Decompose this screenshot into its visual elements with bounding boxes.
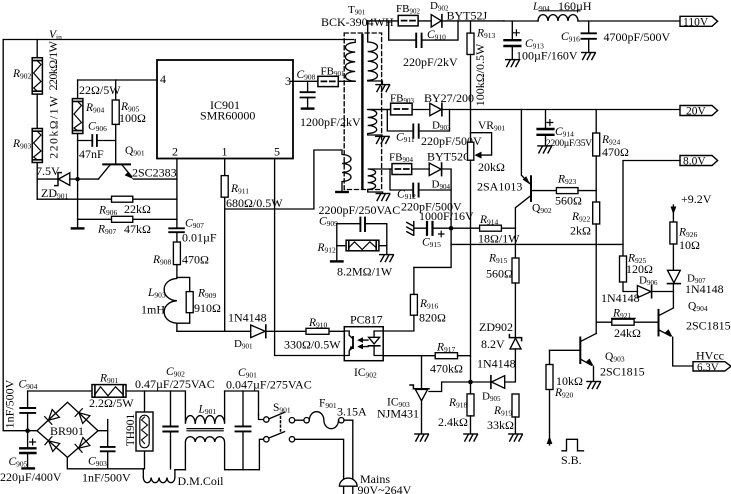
svg-text:0.01µF: 0.01µF	[182, 231, 217, 245]
resistor R909 910ohm parallel	[177, 277, 221, 331]
svg-text:2200pF/250VAC: 2200pF/250VAC	[319, 203, 401, 217]
shunt regulator IC903 NJM431	[377, 356, 468, 441]
svg-text:BYT52J: BYT52J	[447, 9, 488, 23]
diode D907 1N4148	[668, 270, 724, 308]
transformer T901 dashed core box	[344, 33, 381, 190]
wire R906 row	[37, 198, 177, 200]
wire mid rail 8V bus	[451, 243, 623, 245]
svg-text:18Ω/1W: 18Ω/1W	[478, 232, 520, 246]
resistor R911 680ohm 0.5W	[221, 176, 283, 210]
transistor Q901 2SC2383	[80, 145, 177, 180]
signal +9.2V input arrow	[671, 192, 712, 222]
wire IC pin5 column	[275, 159, 345, 356]
wire R902/R903 column	[36, 40, 38, 200]
svg-text:8.2MΩ/1W: 8.2MΩ/1W	[337, 265, 393, 279]
ferrite bead FB903	[390, 93, 414, 115]
ferrite bead FB904	[389, 152, 413, 175]
wire dot column to ground	[77, 179, 79, 227]
connector Mains plug	[339, 472, 411, 494]
svg-text:470Ω: 470Ω	[182, 253, 209, 267]
svg-text:2200µF/35V: 2200µF/35V	[546, 139, 592, 149]
capacitor C909 2200pF/250VAC	[319, 203, 401, 261]
output pennant 8.0V	[680, 156, 718, 168]
ground C915 sideways	[407, 222, 414, 236]
wire R911 to aux winding	[225, 150, 341, 209]
resistor R910 330ohm/0.5W	[284, 317, 341, 352]
svg-text:1: 1	[222, 145, 228, 159]
svg-text:7.5V: 7.5V	[36, 164, 60, 178]
wire C915 node column down	[414, 228, 451, 267]
svg-text:1N4148: 1N4148	[477, 357, 516, 371]
resistor R906 22k	[98, 196, 151, 217]
zener diode ZD902 8.2V	[479, 320, 522, 381]
svg-text:2.2Ω/5W: 2.2Ω/5W	[89, 396, 134, 410]
svg-text:2SC1815: 2SC1815	[600, 365, 645, 379]
zener diode ZD901 7.5V	[36, 164, 75, 201]
svg-text:4700pF/500V: 4700pF/500V	[604, 30, 671, 44]
svg-text:220kΩ/1W: 220kΩ/1W	[46, 40, 60, 90]
svg-text:SMR60000: SMR60000	[200, 109, 255, 123]
svg-text:820Ω: 820Ω	[419, 311, 446, 325]
wire D901 row	[177, 330, 344, 332]
svg-text:20V: 20V	[686, 106, 707, 118]
resistor R918 2.4k	[438, 382, 477, 441]
svg-text:1N4148: 1N4148	[228, 311, 267, 325]
svg-text:22kΩ: 22kΩ	[124, 202, 151, 216]
capacitor C905 220uF/400V	[0, 431, 62, 484]
svg-text:10kΩ: 10kΩ	[556, 374, 583, 388]
svg-text:2.4kΩ: 2.4kΩ	[438, 415, 468, 429]
wire PC817 output row	[383, 355, 470, 357]
svg-text:2: 2	[172, 145, 178, 159]
resistor R907 47k	[97, 216, 151, 236]
svg-text:2SC1815: 2SC1815	[686, 319, 731, 333]
svg-text:0.047µF/275VAC: 0.047µF/275VAC	[226, 378, 312, 392]
output pennant 110V	[680, 16, 718, 28]
wire 8.0V branch	[623, 161, 680, 257]
svg-text:1nF/500V: 1nF/500V	[3, 379, 17, 428]
svg-text:910Ω: 910Ω	[194, 301, 221, 315]
svg-text:10Ω: 10Ω	[679, 238, 700, 252]
node dot DC bus	[25, 428, 30, 433]
svg-text:PC817: PC817	[350, 313, 383, 327]
svg-text:BYT52G: BYT52G	[427, 150, 472, 164]
transistor Q902 2SA1013	[477, 110, 556, 259]
capacitor C907 0.01uF	[169, 218, 217, 245]
svg-text:BCK-3904WH: BCK-3904WH	[321, 15, 394, 29]
ground terminal below dot column	[72, 227, 83, 229]
capacitor C901 0.047uF/275VAC	[226, 367, 312, 470]
wire IC pin3 row	[291, 80, 351, 82]
wire IC pin2 column	[176, 159, 178, 243]
capacitor C915 1000uF/16V	[415, 222, 449, 249]
wire IC pin1 column	[224, 159, 226, 332]
wire Vin top rail	[3, 39, 353, 41]
svg-text:22Ω/5W: 22Ω/5W	[79, 83, 121, 97]
transformer aux winding	[336, 150, 351, 192]
optocoupler IC902 PC817	[344, 313, 383, 380]
signal S.B. pulse symbol	[561, 439, 584, 467]
svg-text:47kΩ: 47kΩ	[124, 222, 151, 236]
capacitor C904 1nF/500V	[3, 379, 38, 429]
svg-text:560Ω: 560Ω	[555, 194, 582, 208]
svg-text:2kΩ: 2kΩ	[570, 224, 591, 238]
capacitor C911 snubber 220pF/500V	[387, 110, 482, 149]
resistor R922 2k	[570, 202, 600, 334]
inductor DM coil	[143, 469, 224, 488]
svg-text:0.47µF/275VAC: 0.47µF/275VAC	[135, 377, 215, 391]
svg-text:BY27/200: BY27/200	[424, 91, 474, 105]
svg-text:90V~264V: 90V~264V	[358, 483, 412, 494]
capacitor C902 0.47uF/275VAC	[135, 366, 215, 469]
svg-text:100µF/160V: 100µF/160V	[516, 49, 578, 63]
diode D903 BY27/200	[424, 91, 474, 132]
svg-text:S.B.: S.B.	[561, 453, 582, 467]
switch S901	[259, 402, 295, 470]
wire 110V rectifier row	[368, 20, 505, 22]
svg-text:1mH: 1mH	[141, 303, 165, 317]
transformer primary winding	[345, 40, 355, 82]
svg-text:100kΩ/0.5W: 100kΩ/0.5W	[473, 43, 487, 106]
wire 20V rectifier row	[368, 109, 681, 111]
capacitor C908 1200pF/2kV	[297, 69, 362, 129]
IC U901 IC901 SMR60000	[157, 60, 293, 159]
transformer secondary winding W2	[368, 110, 391, 137]
capacitor C912 snubber 220pF/500V	[390, 169, 474, 223]
svg-text:2SA1013: 2SA1013	[477, 180, 522, 194]
resistor R916 820ohm	[383, 267, 446, 331]
inductor L901 common mode choke	[185, 391, 224, 470]
svg-text:6.3V: 6.3V	[697, 361, 719, 373]
ferrite bead FB902	[396, 3, 420, 26]
diode D904 BYT52G	[427, 150, 472, 192]
svg-text:1N4148: 1N4148	[685, 282, 724, 296]
wire 8V rectifier row	[392, 169, 451, 226]
capacitor C906 47nF	[78, 121, 116, 162]
ground W2	[376, 136, 390, 143]
svg-text:160µH: 160µH	[558, 0, 592, 13]
svg-text:100Ω: 100Ω	[119, 111, 146, 125]
svg-text:470kΩ: 470kΩ	[430, 362, 463, 376]
resistor R904 22ohm 5W	[72, 80, 121, 177]
ground W3	[376, 194, 390, 201]
diode D901 1N4148	[228, 311, 267, 351]
svg-text:220kΩ/1W: 220kΩ/1W	[49, 94, 61, 158]
svg-text:220pF/2kV: 220pF/2kV	[403, 55, 458, 69]
resistor R913 100k/0.5W	[467, 21, 496, 110]
transformer secondary winding W3	[368, 169, 392, 194]
resistor R903	[12, 94, 61, 162]
svg-text:330Ω/0.5W: 330Ω/0.5W	[284, 338, 341, 352]
svg-text:1nF/500V: 1nF/500V	[82, 471, 131, 485]
resistor R905 100ohm	[112, 80, 146, 164]
svg-text:4: 4	[160, 72, 166, 86]
wire pin4 node	[78, 79, 157, 81]
wire AC top rail	[28, 390, 186, 392]
svg-text:110V: 110V	[683, 17, 709, 29]
resistor R921 24k	[596, 308, 658, 341]
output pennant 20V	[680, 106, 718, 118]
svg-text:3.15A: 3.15A	[337, 405, 367, 419]
resistor R924 470ohm	[593, 111, 629, 203]
potentiometer VR901 20k with sense column	[468, 110, 506, 383]
ground W1	[376, 85, 390, 92]
bridge rectifier BR901	[30, 402, 108, 457]
resistor R920 10k with S.B. input	[546, 350, 583, 445]
thermistor TH901	[125, 391, 153, 469]
wire R907 row	[78, 218, 177, 220]
resistor R902	[12, 40, 60, 94]
svg-text:BR901: BR901	[50, 424, 84, 438]
diode D902 BYT52J	[430, 0, 488, 27]
resistor R923 560ohm	[555, 174, 596, 208]
svg-text:470Ω: 470Ω	[602, 145, 629, 159]
transformer secondary winding W1	[368, 21, 383, 85]
svg-text:33kΩ: 33kΩ	[487, 418, 514, 432]
capacitor C913 100uF/160V	[505, 21, 578, 67]
node dot ZD901/R904 junction	[75, 177, 79, 181]
svg-text:+9.2V: +9.2V	[681, 192, 712, 206]
resistor R901 2.2ohm/5W	[89, 373, 134, 411]
svg-text:560Ω: 560Ω	[486, 267, 513, 281]
svg-text:ZD902: ZD902	[479, 320, 513, 334]
svg-text:1N4148: 1N4148	[601, 291, 640, 305]
svg-text:2SC2383: 2SC2383	[132, 166, 177, 180]
svg-text:8.0V: 8.0V	[683, 156, 706, 168]
resistor R912 8.2M/1W	[317, 240, 394, 278]
svg-text:220µF/400V: 220µF/400V	[0, 470, 62, 484]
capacitor C914 2200uF/35V	[538, 111, 593, 153]
svg-text:D.M.Coil: D.M.Coil	[178, 474, 225, 488]
wire neutral to plug	[295, 439, 344, 478]
svg-text:8.2V: 8.2V	[481, 337, 505, 351]
output pennant HVcc 6.3V	[693, 349, 731, 374]
transformer core lines	[361, 35, 363, 188]
svg-text:NJM431: NJM431	[377, 407, 419, 421]
svg-text:20kΩ: 20kΩ	[478, 160, 505, 174]
wire AC rails right of choke	[225, 391, 259, 415]
fuse F901 3.15A	[295, 398, 367, 479]
ferrite bead FB901	[318, 66, 345, 87]
wire left DC bus	[3, 40, 26, 431]
resistor R914 18ohm/1W	[453, 214, 520, 246]
resistor R925 120ohm	[620, 253, 654, 292]
resistor R908 470ohm	[152, 242, 209, 277]
svg-text:24kΩ: 24kΩ	[614, 326, 641, 340]
capacitor C903 1nF/500V	[82, 420, 131, 485]
resistor R926 10ohm	[670, 222, 700, 270]
node dot C915/R914	[449, 226, 454, 231]
resistor R919 33k	[487, 394, 522, 441]
capacitor C910 snubber 220pF/2kV	[389, 21, 458, 69]
capacitor C916 4700pF/500V	[561, 21, 671, 60]
wire 110V rail to pennant	[504, 20, 680, 22]
node Vin	[49, 29, 62, 42]
svg-text:TH901: TH901	[125, 413, 137, 446]
wire AC bottom rail	[67, 457, 259, 469]
diode D906 1N4148	[601, 275, 673, 306]
inductor L904 160uH	[532, 0, 592, 21]
svg-text:47nF: 47nF	[79, 147, 104, 161]
diode D905 1N4148	[473, 357, 516, 404]
transistor Q904 2SC1815	[659, 301, 731, 367]
resistor R915 560ohm	[486, 253, 519, 338]
svg-text:5: 5	[274, 145, 280, 159]
transistor Q903 2SC1815	[550, 334, 645, 389]
inductor L903 1mH	[141, 278, 177, 323]
svg-text:1200pF/2kV: 1200pF/2kV	[300, 115, 361, 129]
node dot R918/D905	[468, 380, 473, 385]
resistor R917 470k	[430, 342, 463, 376]
